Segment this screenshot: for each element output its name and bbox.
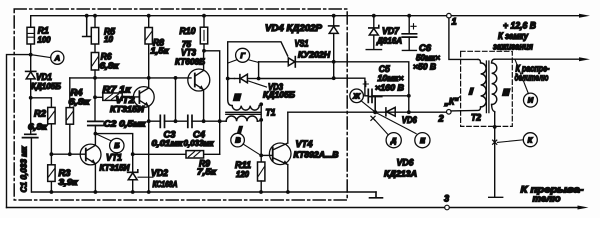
wire: C3/C4 midpoint up to VT3 base line — [175, 78, 177, 121]
svg-text:делителю: делителю — [515, 73, 549, 83]
svg-text:7,5к: 7,5к — [197, 167, 217, 177]
wire: VT1 collector node to VD2 — [95, 134, 132, 173]
svg-text:1: 1 — [452, 17, 457, 27]
svg-text:Д: Д — [390, 136, 397, 145]
wire: base line of VT1 (R2/R4/R3 node) — [51, 153, 85, 155]
transformer T1 winding II — [228, 79, 262, 111]
svg-text:R2: R2 — [34, 109, 47, 119]
svg-text:II: II — [503, 88, 511, 98]
svg-text:0,033мк: 0,033мк — [184, 138, 215, 148]
junction: VD3 cathode / gate line — [226, 77, 230, 81]
junction: C4 / VT3 emitter / T1-I — [202, 119, 206, 123]
node И: test point circle with pointer — [515, 59, 538, 107]
capacitor C4 0,033мк — [184, 115, 215, 148]
junction: rail / R10 — [202, 14, 206, 18]
svg-text:I: I — [469, 87, 474, 97]
transformer T1 winding I — [226, 116, 261, 135]
svg-text:КС168А: КС168А — [153, 179, 178, 189]
wire: R10 node over to T1 feed / R9 column — [204, 51, 220, 155]
junction: VS1 column / VD3 anode row — [332, 76, 336, 80]
wire: +12V top rail — [31, 15, 447, 17]
junction: bottom rail / VT2 emitter — [147, 190, 151, 194]
svg-text:зажигания: зажигания — [493, 42, 533, 52]
X mark on breaker drop wire — [493, 140, 497, 144]
junction: rail / C6 — [407, 14, 411, 18]
node junction VD1 / R2 branch — [29, 96, 33, 100]
wire: VT2 emitter down through C3 node to bottom rail — [148, 121, 150, 192]
arrow: to breaker (right end of bottom line) — [578, 206, 589, 210]
node Б: test point circle with pointer — [95, 134, 124, 153]
junction: T2 secondary drop at box edge — [493, 125, 497, 129]
wire: VS1 cathode row to coil feed column — [334, 62, 409, 112]
node A: test point circle with pointer — [31, 51, 64, 64]
svg-text:II: II — [234, 93, 242, 103]
zener VD2 КС168А — [128, 168, 178, 192]
diode VD6 on pulse line — [386, 107, 418, 124]
chassis stub on top rail — [83, 16, 91, 37]
svg-text:3: 3 — [444, 194, 449, 204]
svg-text:В: В — [235, 136, 241, 145]
diode VD3 КД105Б — [228, 74, 295, 99]
svg-text:С1 0,033 мк: С1 0,033 мк — [19, 146, 29, 193]
svg-text:75: 75 — [182, 39, 191, 49]
wire: VD3 anode up to VS1 anode row — [258, 62, 260, 79]
wire: output pulse line VT4 collector to terminal 2 — [288, 111, 447, 113]
junction: R4 / VT1 base line — [68, 152, 72, 156]
transformer T2 winding II — [492, 59, 511, 112]
terminal 2 — [447, 110, 452, 115]
transformer T1 core — [226, 112, 261, 114]
svg-text:КУ202Н: КУ202Н — [298, 50, 331, 60]
diode VD4 КД202Р — [265, 16, 339, 62]
junction: bottom rail / VT4 emitter — [286, 190, 290, 194]
thyristor VS1 КУ202Н — [259, 39, 334, 68]
svg-text:×160 В: ×160 В — [375, 83, 404, 93]
svg-text:6,8к: 6,8к — [69, 97, 91, 107]
dash-dot enclosure border of the unit — [14, 9, 347, 200]
svg-text:VD6: VD6 — [397, 158, 415, 168]
svg-text:VD6: VD6 — [402, 115, 418, 125]
transformer T2 winding I — [451, 59, 486, 111]
wire: +12.6V output to ignition switch — [451, 15, 580, 17]
junction: VT1 collector / C2 / VD2 line — [94, 132, 98, 136]
capacitor C2 0,5мк — [88, 97, 147, 133]
wire: left input wire from R1 junction to bottom breaker line — [7, 55, 31, 208]
wire: distributor output line — [495, 58, 580, 60]
wire: C3/C4 coupling line — [149, 120, 227, 122]
transistor VT4 КТ892А...В — [261, 112, 338, 192]
svg-text:Е: Е — [420, 136, 426, 145]
wire: VS1 cathode column down to pulse line — [333, 62, 335, 78]
junction: T1 winding II right end — [259, 102, 263, 106]
wire: T1 right side column down to R11 — [260, 104, 262, 162]
svg-text:1,5к: 1,5к — [151, 46, 170, 56]
svg-text:К: К — [528, 135, 534, 144]
junction: VT4 base / R11 top — [259, 154, 263, 158]
svg-text:+ 12,6 В: + 12,6 В — [503, 21, 536, 31]
wire: VS1 gate loop over VD3 — [228, 42, 288, 79]
transistor VT3 КТ608Б — [175, 48, 210, 122]
junction: R9 column / C3-C4 line — [218, 119, 222, 123]
transformer T2 core — [486, 61, 489, 113]
node Е: test point circle with pointer — [375, 112, 430, 148]
wire: coil secondary down to chassis — [489, 112, 503, 197]
svg-text:телю: телю — [533, 194, 561, 204]
wire: R4/R6/VT2-collector/VT3-base horizontal — [70, 77, 191, 79]
junction: R6 bottom — [93, 76, 97, 80]
svg-text:КД213А: КД213А — [384, 169, 417, 179]
node junction under R1 — [29, 53, 33, 57]
svg-text:И: И — [528, 96, 534, 105]
resistor R9 7,5к — [133, 151, 220, 177]
wire: bottom common rail inside unit — [32, 191, 376, 193]
transistor VT2 КТ315И — [110, 78, 154, 121]
svg-text:Б: Б — [114, 141, 120, 150]
junction: bottom rail / R11 — [259, 190, 263, 194]
capacitor C5 10мк x160В — [363, 64, 409, 102]
svg-text:С2 0,5мк: С2 0,5мк — [104, 119, 147, 129]
svg-text:100: 100 — [38, 35, 51, 45]
zener VD7 Д816А — [366, 16, 402, 50]
svg-text:VD2: VD2 — [151, 168, 169, 178]
svg-text:Ж: Ж — [352, 91, 361, 100]
diode VD1 КД105Б — [26, 55, 61, 135]
node В: test point circle with pointer — [231, 133, 261, 155]
junction: VD2 / R9 — [131, 152, 135, 156]
svg-text:Д816А: Д816А — [376, 36, 402, 46]
svg-text:R10: R10 — [180, 26, 197, 36]
svg-text:6,8к: 6,8к — [28, 122, 48, 132]
bottom rail junction dots — [50, 190, 54, 194]
resistor R1 — [27, 16, 51, 55]
junction: bottom rail / VD2 — [131, 190, 135, 194]
resistor R7 1к — [95, 84, 139, 100]
junction: rail / chassis stub — [85, 14, 89, 18]
svg-text:Г: Г — [240, 51, 245, 60]
resistor R8 1,5к — [145, 16, 169, 78]
junction: VT2 collector line — [147, 76, 151, 80]
svg-text:10мк×: 10мк× — [378, 73, 404, 83]
wire: bottom breaker line (full width) — [7, 207, 579, 209]
svg-text:×50 В: ×50 В — [413, 62, 436, 72]
node Ж: test point circle with curved pointer — [350, 89, 375, 112]
junction: VT2 emitter / C3 line — [147, 119, 151, 123]
svg-text:А: А — [54, 53, 60, 62]
junction: rail / R5 — [93, 14, 97, 18]
junction: rail / VD7 — [372, 14, 376, 18]
svg-text:10: 10 — [104, 34, 113, 44]
junction: C5 right / coil feed column — [407, 94, 411, 98]
svg-text:КТ892А...В: КТ892А...В — [294, 150, 339, 160]
X mark under pulse line junction — [371, 116, 375, 120]
svg-text:120: 120 — [236, 169, 249, 179]
junction: R2 / R3 / VT1 base — [50, 152, 54, 156]
svg-text:Т2: Т2 — [471, 113, 482, 123]
junction: bottom rail / VT1 emitter — [94, 190, 98, 194]
wire: R6 bottom to R7/C2 node — [94, 78, 96, 97]
resistor R11 120 — [235, 160, 265, 192]
node Г: test point circle with two pointers — [228, 48, 259, 63]
svg-text:К замку: К замку — [498, 31, 529, 41]
node Д: test point circle with pointer — [374, 119, 402, 148]
junction: pulse line / coil feed column — [407, 110, 411, 114]
terminal 1 — [447, 13, 452, 18]
capacitor C3 0,01мк — [152, 115, 184, 148]
transistor VT1 КТ315И — [80, 134, 130, 192]
svg-text:VD4 КД202Р: VD4 КД202Р — [265, 23, 323, 33]
svg-text:КД105Б: КД105Б — [31, 81, 61, 91]
svg-text:6,8к: 6,8к — [100, 61, 120, 71]
resistor R3 3,9к — [48, 154, 79, 192]
svg-text:VD7: VD7 — [382, 26, 400, 36]
resistor R5 10 — [91, 16, 116, 53]
capacitor C1 0,033 мк — [19, 134, 38, 192]
junction: R6 / R7 / C2 — [93, 95, 97, 99]
chassis stub above pulse line — [369, 97, 382, 113]
junction: VD3 anode / pulse row — [257, 77, 261, 81]
resistor R2 6,8к — [28, 98, 55, 154]
junction: rail / VD4 — [332, 14, 336, 18]
svg-text:„К“: „К“ — [444, 97, 459, 107]
svg-text:VT4: VT4 — [296, 139, 313, 149]
svg-text:С6: С6 — [419, 43, 432, 53]
svg-text:КД105Б: КД105Б — [263, 90, 295, 100]
wire: terminal 1 down and into coil primary — [449, 18, 478, 59]
ignition coil dashed box — [461, 51, 513, 126]
svg-text:0,01мк: 0,01мк — [152, 138, 184, 148]
junction: C3 / C4 midpoint — [174, 119, 178, 123]
svg-text:КТ608Б: КТ608Б — [175, 57, 205, 67]
svg-text:КТ315И: КТ315И — [110, 104, 145, 114]
junction: pulse line / chassis / test points — [373, 110, 377, 114]
terminal 3 — [445, 205, 450, 210]
wire: VD3 anode row over to C5 — [259, 78, 365, 96]
junction: rail / R8 — [147, 14, 151, 18]
svg-text:R7 1к: R7 1к — [103, 84, 133, 94]
junction: C3/C4 tap top — [174, 76, 178, 80]
resistor R4 6,8к — [66, 78, 90, 154]
svg-text:2: 2 — [438, 114, 445, 124]
junction: T1 winding I right end — [259, 118, 263, 122]
node К: test point circle with pointer — [498, 133, 538, 147]
junction: VS1 cathode / VD4 column — [332, 60, 336, 64]
svg-text:3,9к: 3,9к — [59, 177, 79, 187]
resistor R10 75 — [180, 16, 208, 51]
junction: R10 bottom / VT3 collector — [202, 49, 206, 53]
chassis symbol at right end of bottom rail — [370, 192, 383, 198]
resistor R6 6,8к — [91, 52, 119, 78]
svg-text:Т1: Т1 — [266, 108, 276, 118]
svg-text:VS1: VS1 — [295, 39, 309, 49]
capacitor C6 50мк x50В (electrolytic) — [402, 16, 440, 72]
svg-text:КТ315И: КТ315И — [100, 163, 131, 173]
svg-text:VT1: VT1 — [106, 153, 122, 163]
